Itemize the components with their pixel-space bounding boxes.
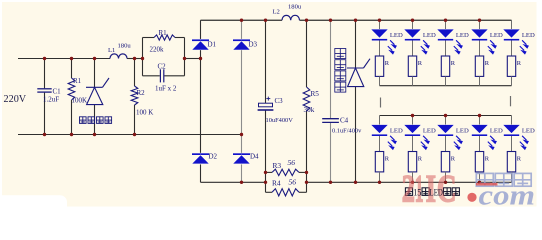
svg-text:D3: D3 — [249, 41, 258, 49]
svg-text:LED: LED — [522, 32, 535, 39]
svg-text:R: R — [385, 156, 390, 163]
svg-text:C1: C1 — [53, 88, 62, 96]
svg-text:R: R — [485, 60, 490, 67]
svg-text:R: R — [485, 156, 490, 163]
svg-text:D4: D4 — [250, 153, 259, 161]
svg-text:D1: D1 — [208, 41, 217, 49]
svg-text:0.1uF/400v: 0.1uF/400v — [332, 127, 362, 134]
svg-text:R: R — [451, 60, 456, 67]
svg-text:LED: LED — [430, 189, 444, 199]
svg-text:R2: R2 — [137, 89, 146, 97]
svg-text:C3: C3 — [275, 97, 284, 105]
svg-text:1.2uF: 1.2uF — [43, 96, 59, 104]
svg-text:100K: 100K — [72, 97, 88, 105]
svg-text:220k: 220k — [150, 46, 165, 54]
svg-text:LED: LED — [490, 32, 503, 39]
svg-text:D2: D2 — [209, 153, 218, 161]
svg-text:R4: R4 — [272, 178, 281, 187]
svg-text:1uF x 2: 1uF x 2 — [155, 85, 177, 93]
svg-text:220V: 220V — [4, 94, 27, 105]
svg-text:L2: L2 — [273, 9, 280, 16]
svg-text:R: R — [517, 60, 522, 67]
svg-text:LED: LED — [490, 127, 503, 134]
svg-text:C4: C4 — [340, 117, 349, 125]
svg-text:R1: R1 — [159, 29, 168, 37]
svg-text:LED: LED — [390, 127, 403, 134]
svg-text:LED: LED — [456, 127, 469, 134]
svg-text:56: 56 — [288, 158, 296, 167]
svg-text:56: 56 — [289, 178, 297, 187]
svg-text:R: R — [451, 156, 456, 163]
svg-text:LED: LED — [522, 127, 535, 134]
svg-text:10uF400V: 10uF400V — [266, 117, 294, 124]
svg-text:R: R — [418, 156, 423, 163]
svg-text:R: R — [517, 156, 522, 163]
svg-text:15: 15 — [413, 189, 421, 199]
svg-text:180u: 180u — [118, 43, 132, 50]
svg-text:180u: 180u — [288, 4, 302, 11]
svg-text:LED: LED — [423, 127, 436, 134]
svg-text:R5: R5 — [311, 90, 320, 98]
svg-text:100 K: 100 K — [136, 109, 153, 117]
svg-text:LED: LED — [423, 32, 436, 39]
svg-text:C2: C2 — [158, 63, 167, 71]
svg-text:LED: LED — [390, 32, 403, 39]
svg-text:R: R — [385, 60, 390, 67]
svg-text:LED: LED — [456, 32, 469, 39]
svg-text:R1: R1 — [73, 77, 82, 85]
svg-text:R3: R3 — [273, 161, 282, 170]
svg-text:L1: L1 — [108, 47, 115, 54]
svg-text:R: R — [418, 60, 423, 67]
svg-text:30k: 30k — [304, 106, 315, 114]
